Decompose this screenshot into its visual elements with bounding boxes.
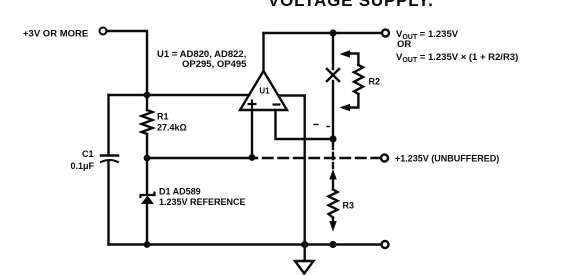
svg-text:D1 AD589: D1 AD589: [159, 187, 201, 197]
svg-text:C1: C1: [82, 149, 94, 159]
svg-text:R2: R2: [369, 77, 381, 87]
svg-text:U1: U1: [259, 87, 270, 96]
svg-text:VOLTAGE SUPPLY.: VOLTAGE SUPPLY.: [268, 0, 434, 10]
svg-text:OR: OR: [397, 39, 411, 50]
svg-text:+1.235V (UNBUFFERED): +1.235V (UNBUFFERED): [395, 154, 499, 164]
svg-text:OP295, OP495: OP295, OP495: [182, 59, 247, 70]
svg-text:VOUT = 1.235V × (1 + R2/R3): VOUT = 1.235V × (1 + R2/R3): [396, 52, 518, 64]
svg-text:R3: R3: [343, 201, 355, 211]
svg-text:+3V OR MORE: +3V OR MORE: [23, 29, 88, 40]
svg-text:0.1μF: 0.1μF: [71, 161, 95, 171]
svg-text:27.4kΩ: 27.4kΩ: [157, 123, 187, 133]
svg-text:1.235V REFERENCE: 1.235V REFERENCE: [159, 197, 246, 207]
svg-text:R1: R1: [157, 112, 169, 122]
